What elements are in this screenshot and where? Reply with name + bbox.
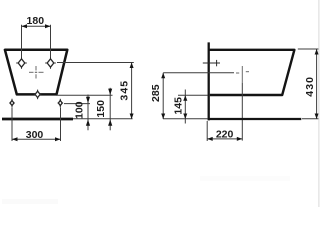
dimension 285 arrow bottom — [161, 114, 165, 120]
drain center mark front view — [29, 66, 44, 79]
fixing hole left diamond — [16, 57, 27, 68]
faint ghost band — [200, 176, 290, 181]
dimension 150 arrow top — [108, 89, 112, 95]
dimension 220 line — [207, 138, 242, 140]
dimension 100 arrow top — [86, 97, 90, 103]
dimension 430 arrow bottom — [315, 114, 319, 120]
dimension 220 arrow right — [237, 137, 243, 141]
dimension 150 arrow bottom — [108, 120, 112, 126]
dimension 180 extension line left — [21, 25, 23, 59]
dimension 300 arrow left — [12, 137, 18, 141]
dimension 300 arrow right — [55, 137, 61, 141]
dimension 100 arrow bottom — [86, 120, 90, 126]
dimension 150 line — [109, 88, 111, 131]
side view drain dashed mark — [236, 66, 249, 83]
floor extension line right of side view — [302, 118, 319, 120]
dimension 430 arrow top — [315, 49, 319, 55]
wall fixing hole right small diamond — [58, 99, 64, 108]
svg-text:430: 430 — [304, 76, 316, 97]
dimension 145 arrow bottom — [183, 114, 187, 120]
dimension 180 arrow left — [22, 24, 28, 28]
dimension 150 extension line — [56, 94, 113, 96]
svg-text:300: 300 — [26, 129, 44, 141]
side view floor line — [209, 118, 302, 120]
dimension 430 line — [316, 49, 318, 119]
front view body outline — [5, 50, 67, 95]
dimension 145 line — [184, 90, 186, 124]
dimension 300 extension line left — [11, 108, 13, 142]
svg-text:345: 345 — [119, 80, 131, 101]
faint ghost text bottom left — [2, 199, 58, 204]
svg-text:150: 150 — [95, 100, 107, 118]
dimension 285 arrow top — [161, 73, 165, 79]
floor extension line between views right — [163, 118, 208, 120]
dimension 220 arrow left — [207, 137, 213, 141]
dimension 345 line — [131, 63, 133, 120]
side view fixing hole cross — [203, 60, 220, 66]
dimension 300 line — [12, 138, 61, 140]
drain centerline extension — [241, 83, 243, 141]
dimension 220 extension line left — [206, 121, 208, 141]
dimension 180 arrow right — [45, 24, 51, 28]
side view wall line — [208, 42, 210, 120]
fixing hole right diamond — [45, 57, 56, 68]
svg-text:180: 180 — [27, 15, 45, 27]
svg-text:220: 220 — [216, 128, 234, 140]
dimension 180 extension line right — [50, 25, 52, 59]
dimension 180 line — [22, 25, 51, 27]
dimension 430 extension line top — [298, 48, 319, 50]
svg-text:100: 100 — [74, 101, 86, 119]
wall fixing hole left small diamond — [9, 99, 15, 108]
dimension 100 line — [87, 95, 89, 131]
page border right — [318, 0, 320, 207]
dimension 145 extension line — [178, 94, 208, 96]
dimension 345 arrow top — [130, 63, 134, 69]
dimension 100 extension line — [64, 103, 90, 105]
dimension 300 extension line right — [60, 108, 62, 142]
svg-text:285: 285 — [150, 84, 162, 102]
front view floor line — [2, 118, 73, 121]
bottom drain diamond front view — [34, 90, 42, 100]
dimension 145 arrow top — [183, 95, 187, 101]
dimension 345 extension line — [57, 62, 134, 64]
dimension 285 extension line — [163, 72, 234, 74]
floor extension line between views left — [73, 118, 133, 120]
dimension 285 line — [162, 73, 164, 119]
dimension 345 arrow bottom — [130, 114, 134, 120]
svg-text:145: 145 — [173, 97, 185, 115]
side view body outline — [209, 50, 295, 95]
